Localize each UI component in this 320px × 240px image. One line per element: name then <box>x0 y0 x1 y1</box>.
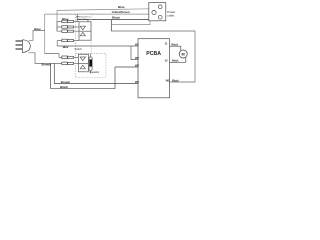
svg-text:Blue: Blue <box>63 45 69 49</box>
switch S1 dashed enclosure <box>75 14 91 54</box>
switch S1 contact symbol (up triangle) <box>80 32 85 35</box>
node junction A (earth tap) <box>77 14 89 22</box>
wire plug top (blue) <box>29 31 45 41</box>
svg-text:outlet: outlet <box>167 13 174 17</box>
svg-text:Blue/White: Blue/White <box>79 18 90 21</box>
capacitor C1 <box>89 54 92 74</box>
svg-text:W1: W1 <box>135 43 139 47</box>
wire J1 to motor <box>170 46 181 50</box>
svg-text:Brown: Brown <box>42 63 52 67</box>
label Power outlet <box>167 10 175 18</box>
connector pair CN6 <box>62 62 74 65</box>
power plug P1 body <box>22 40 30 53</box>
svg-text:W3: W3 <box>135 64 139 68</box>
wire yellow/green earth line to outlet <box>45 14 149 54</box>
svg-text:Capacitor: Capacitor <box>90 71 100 74</box>
connector pair CN1 <box>62 20 74 23</box>
wire black line to outlet <box>77 20 149 31</box>
switch S1 body <box>79 22 91 40</box>
switch S2 contact symbol (down triangle) <box>80 57 85 61</box>
connector pair CN3 <box>62 30 74 33</box>
connector pair CN2 <box>62 26 74 29</box>
switch S2 body <box>78 54 88 72</box>
svg-text:M: M <box>182 53 185 57</box>
svg-text:Blue: Blue <box>118 5 125 9</box>
wire black to PCBA pin W3 <box>51 63 138 88</box>
power plug P1 prongs <box>16 41 23 49</box>
switch S2 contact symbol (up triangle) <box>80 65 85 69</box>
wire upper row 2 <box>57 26 79 28</box>
wire upper row 3 and left bus drop <box>57 22 79 32</box>
wire blue line to outlet (node L1) <box>57 9 149 31</box>
wire upper row 1 (blue) <box>57 21 79 23</box>
svg-text:Black: Black <box>171 44 178 47</box>
wire J2 to motor <box>170 58 186 63</box>
motor M1 <box>179 50 187 58</box>
svg-text:Black: Black <box>112 15 120 19</box>
power outlet pin 1 <box>158 5 162 9</box>
wire plug bottom (brown) <box>29 53 79 64</box>
wire bridge W1 to W2 <box>131 46 138 60</box>
svg-text:Yellow/Green: Yellow/Green <box>112 10 130 14</box>
svg-text:Black: Black <box>60 85 68 89</box>
wire switch to PCBA pin W1 <box>57 45 138 47</box>
wire lower row 1 <box>45 54 79 58</box>
power outlet pin 2 (earth) <box>152 10 156 14</box>
svg-text:Brown: Brown <box>61 80 71 84</box>
svg-text:Blue: Blue <box>34 27 41 31</box>
power outlet J3 body <box>149 3 166 21</box>
wire brown to PCBA pin W4 <box>54 63 138 83</box>
PCBA board U1 <box>138 39 170 98</box>
svg-text:Switch: Switch <box>75 48 83 51</box>
svg-text:W4: W4 <box>135 80 139 84</box>
svg-text:PCBA: PCBA <box>146 51 161 57</box>
connector pair CN5 <box>62 56 74 59</box>
svg-text:W2: W2 <box>135 56 139 60</box>
svg-text:W5: W5 <box>166 79 170 83</box>
switch S1 contact symbol (down triangle) <box>80 26 85 30</box>
svg-text:Yellow/Green: Yellow/Green <box>79 16 91 18</box>
svg-text:Blue: Blue <box>62 17 69 21</box>
svg-text:Black: Black <box>172 79 179 82</box>
wire upper row 4 to W1 riser <box>57 41 79 47</box>
connector pair CN4 <box>62 39 74 42</box>
power outlet pin 3 <box>158 15 162 19</box>
switch S2 dashed enclosure <box>75 54 106 78</box>
svg-text:Black: Black <box>172 60 179 63</box>
wire black loop W5 to outlet net <box>111 31 195 82</box>
wire outlet bottom feed <box>111 21 150 25</box>
